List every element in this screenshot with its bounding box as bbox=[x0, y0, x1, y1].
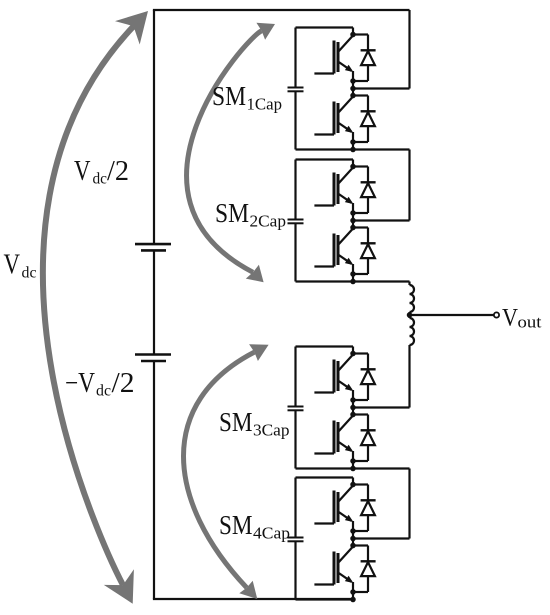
wire SM4 capacitor lower lead bbox=[294, 541, 296, 599]
node SM4 lower collector junction bbox=[350, 543, 356, 549]
wire SM1 bottom to SM2 midpoint bbox=[408, 150, 410, 221]
capacitor SM1 Cap bbox=[288, 88, 304, 92]
diode D7 (SM4 upper antiparallel diode) bbox=[353, 485, 376, 532]
arrow Vdc full-span measure bbox=[43, 11, 148, 604]
wire SM3 bottom extension bbox=[353, 467, 410, 469]
wire SM2 capacitor upper lead bbox=[294, 160, 296, 220]
label Vdc/2 bbox=[74, 156, 129, 188]
node SM3 upper emitter junction bbox=[350, 397, 356, 403]
svg-text:SM: SM bbox=[219, 509, 253, 540]
node SM2 midpoint bbox=[350, 218, 356, 224]
label Vout bbox=[502, 303, 542, 332]
wire SM1 midpoint tap bbox=[353, 87, 410, 89]
transistor Q5 (SM3 upper IGBT) bbox=[314, 355, 353, 401]
node SM3 bottom junction bbox=[350, 466, 356, 472]
wire SM1 capacitor upper lead bbox=[294, 28, 296, 88]
battery B1 (upper DC source) bbox=[135, 244, 171, 250]
node SM1 midpoint bbox=[350, 86, 356, 92]
transistor Q2 (SM1 lower IGBT) bbox=[314, 97, 353, 143]
svg-text:4Cap: 4Cap bbox=[253, 523, 290, 542]
svg-text:V: V bbox=[502, 303, 519, 332]
label -Vdc/2 bbox=[65, 368, 135, 400]
diode D5 (SM3 upper antiparallel diode) bbox=[353, 354, 376, 401]
node SM3 midpoint bbox=[350, 405, 356, 411]
wire SM2 bottom extension (upper arm to inductor) bbox=[353, 280, 410, 282]
wire SM4 capacitor upper lead bbox=[294, 478, 296, 538]
node SM4 upper emitter junction bbox=[350, 528, 356, 534]
capacitor SM3 Cap bbox=[288, 407, 304, 411]
wire SM4 bottom rail bbox=[296, 598, 354, 600]
node SM2 lower collector junction bbox=[350, 225, 356, 231]
label SM4Cap bbox=[219, 509, 290, 542]
svg-text:SM: SM bbox=[212, 80, 246, 111]
svg-text:dc: dc bbox=[93, 171, 108, 188]
arrow lower-arm measure (-Vdc/2) bbox=[184, 344, 269, 599]
diode D2 (SM1 lower antiparallel diode) bbox=[353, 96, 376, 143]
transistor Q3 (SM2 upper IGBT) bbox=[314, 168, 353, 214]
diode D4 (SM2 lower antiparallel diode) bbox=[353, 228, 376, 275]
node SM2 lower emitter junction bbox=[350, 271, 356, 277]
svg-text:V: V bbox=[74, 156, 91, 187]
diode D1 (SM1 upper antiparallel diode) bbox=[353, 35, 376, 82]
diode D8 (SM4 lower antiparallel diode) bbox=[353, 546, 376, 593]
node SM2 upper collector junction bbox=[350, 164, 356, 170]
wire SM3 lower emitter to bottom rail bbox=[352, 461, 354, 469]
label SM1Cap bbox=[212, 80, 282, 113]
node SM1 upper emitter junction bbox=[350, 78, 356, 84]
wire SM1 capacitor lower lead bbox=[294, 91, 296, 149]
wire SM1 bottom extension bbox=[353, 148, 410, 150]
node SM1 lower collector junction bbox=[350, 93, 356, 99]
wire SM2 midpoint tap bbox=[353, 219, 410, 221]
arrow upper-arm measure (Vdc/2) bbox=[187, 23, 275, 283]
node SM3 lower emitter junction bbox=[350, 458, 356, 464]
label SM3Cap bbox=[219, 406, 290, 439]
wire bottom rail bbox=[153, 598, 353, 600]
wire SM2 top rail bbox=[296, 158, 354, 160]
node SM2 bottom junction bbox=[350, 279, 356, 285]
svg-text:out: out bbox=[518, 313, 542, 332]
wire SM3 capacitor upper lead bbox=[294, 347, 296, 407]
wire SM3 upper collector stub bbox=[352, 347, 354, 354]
wire SM3 bottom to SM4 midpoint bbox=[408, 469, 410, 539]
wire SM3 emitter to midpoint bbox=[352, 400, 354, 415]
node SM1 upper collector junction bbox=[350, 32, 356, 38]
svg-text:SM: SM bbox=[215, 197, 249, 228]
node SM2 upper emitter junction bbox=[350, 210, 356, 216]
wire SM4 lower emitter to bottom rail bbox=[352, 592, 354, 600]
label Vdc bbox=[4, 250, 37, 282]
svg-text:SM: SM bbox=[219, 406, 253, 437]
svg-text:/2: /2 bbox=[107, 156, 129, 187]
transistor Q8 (SM4 lower IGBT) bbox=[314, 547, 353, 593]
wire left DC bus middle segment bbox=[153, 250, 155, 354]
wire SM3 bottom rail bbox=[296, 467, 354, 469]
wire SM4 midpoint tap bbox=[353, 537, 410, 539]
transistor Q1 (SM1 upper IGBT) bbox=[314, 36, 353, 82]
wire left DC bus lower segment bbox=[153, 361, 155, 599]
svg-text:dc: dc bbox=[22, 265, 37, 282]
capacitor SM4 Cap bbox=[288, 538, 304, 542]
node SM1 bottom junction bbox=[350, 147, 356, 153]
svg-text:−V: −V bbox=[65, 368, 95, 399]
wire SM3 top rail bbox=[296, 345, 354, 347]
transistor Q6 (SM3 lower IGBT) bbox=[314, 416, 353, 462]
diode D3 (SM2 upper antiparallel diode) bbox=[353, 167, 376, 214]
node SM3 upper collector junction bbox=[350, 351, 356, 357]
svg-text:V: V bbox=[4, 250, 21, 281]
wire SM3 midpoint tap bbox=[353, 406, 410, 408]
node inductor centre tap bbox=[407, 312, 413, 318]
node SM4 lower emitter junction bbox=[350, 589, 356, 595]
wire right drop from top rail to SM1 midpoint bbox=[408, 10, 410, 89]
wire SM3 capacitor lower lead bbox=[294, 410, 296, 468]
battery B2 (lower DC source) bbox=[135, 355, 171, 362]
transistor Q4 (SM2 lower IGBT) bbox=[314, 229, 353, 275]
wire SM1 upper collector stub bbox=[352, 28, 354, 35]
wire output lead bbox=[410, 314, 495, 316]
node SM1 lower emitter junction bbox=[350, 139, 356, 145]
capacitor SM2 Cap bbox=[288, 220, 304, 224]
diode D6 (SM3 lower antiparallel diode) bbox=[353, 415, 376, 462]
wire SM1 emitter to midpoint bbox=[352, 81, 354, 96]
wire SM4 top rail bbox=[296, 476, 354, 478]
wire top rail bbox=[153, 9, 410, 11]
terminal Vout (open circle) bbox=[494, 312, 499, 317]
wire SM4 upper collector stub bbox=[352, 478, 354, 485]
inductor L (arm inductors with centre tap) bbox=[410, 282, 415, 408]
svg-text:1Cap: 1Cap bbox=[247, 94, 283, 113]
wire SM2 bottom rail bbox=[296, 280, 354, 282]
wire SM2 lower emitter to bottom rail bbox=[352, 274, 354, 282]
wire SM4 emitter to midpoint bbox=[352, 531, 354, 546]
wire SM1 lower emitter to bottom rail bbox=[352, 142, 354, 150]
node SM3 lower collector junction bbox=[350, 412, 356, 418]
transistor Q7 (SM4 upper IGBT) bbox=[314, 486, 353, 532]
svg-text:dc: dc bbox=[96, 383, 111, 400]
wire SM2 capacitor lower lead bbox=[294, 223, 296, 281]
wire SM2 upper collector stub bbox=[352, 160, 354, 167]
svg-text:2Cap: 2Cap bbox=[250, 211, 287, 230]
svg-text:/2: /2 bbox=[112, 368, 135, 399]
svg-text:3Cap: 3Cap bbox=[253, 420, 290, 439]
wire SM1 bottom rail bbox=[296, 148, 354, 150]
label SM2Cap bbox=[215, 197, 286, 230]
wire left DC bus upper segment bbox=[153, 10, 155, 244]
node SM4 bottom junction bbox=[350, 597, 356, 603]
node SM4 upper collector junction bbox=[350, 482, 356, 488]
node SM4 midpoint bbox=[350, 536, 356, 542]
wire SM2 emitter to midpoint bbox=[352, 213, 354, 228]
wire SM1 top rail bbox=[296, 26, 354, 28]
